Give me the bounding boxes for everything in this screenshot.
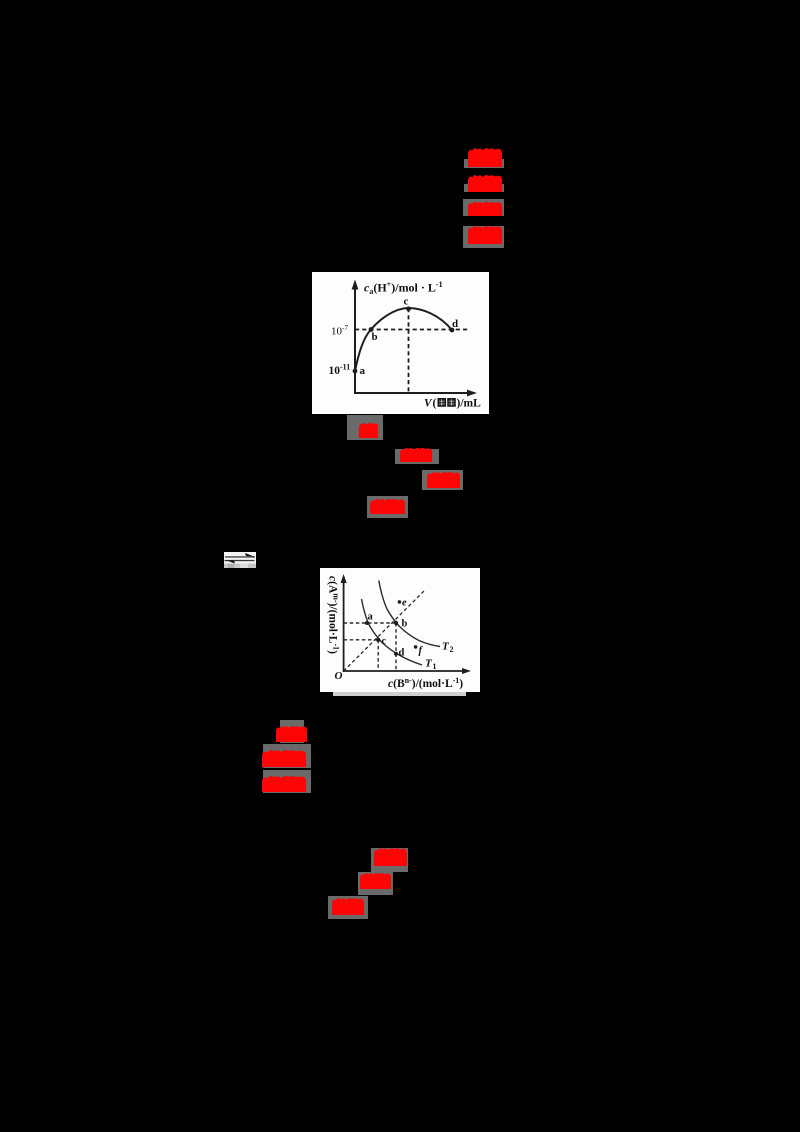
point c [406, 306, 411, 311]
answer A3 red text blob [468, 201, 502, 216]
point d [450, 328, 455, 333]
svg-text:a: a [360, 365, 366, 377]
answer B2 red text blob [400, 447, 432, 462]
answer A3 gray highlight [463, 199, 504, 216]
top harpoon shaft [225, 556, 255, 557]
answer B1 gray highlight [347, 415, 383, 440]
answer A2 red text blob [468, 174, 502, 192]
fake kanji 盐 [438, 398, 447, 407]
svg-text:c(Bn-)/(mol·L-1): c(Bn-)/(mol·L-1) [388, 676, 463, 690]
answer B3 red text blob [427, 471, 460, 488]
answer A1 red text blob [468, 147, 502, 167]
answer A4 gray highlight [463, 226, 504, 248]
point e [398, 600, 402, 604]
dashed horizontal through c [344, 639, 379, 641]
x-axis graph1 [354, 392, 472, 394]
svg-text:d: d [399, 648, 405, 659]
point b [369, 327, 374, 332]
answer C2 gray highlight [263, 744, 311, 768]
x-axis title V(盐酸)/mL [424, 398, 481, 410]
answer B4 red text blob [370, 498, 405, 514]
bottom harpoon shaft [225, 560, 255, 561]
answer A2 gray highlight [464, 184, 504, 192]
curve T1 [362, 599, 423, 665]
point f [414, 645, 418, 649]
point b [394, 621, 398, 625]
answer A4 red text blob [468, 225, 502, 244]
answer B3 gray highlight [422, 470, 463, 490]
answer B2 gray highlight [395, 449, 439, 464]
dashed horizontal through a,b [344, 622, 396, 624]
answer C2 red text blob [262, 749, 306, 767]
svg-text:ca(H+)/mol · L-1: ca(H+)/mol · L-1 [364, 280, 443, 296]
svg-text:e: e [402, 598, 407, 609]
svg-text:f: f [419, 646, 424, 657]
point c [376, 638, 380, 642]
svg-text:)/mL: )/mL [457, 398, 482, 410]
answer C3 gray highlight [263, 770, 311, 793]
answer C3 red text blob [262, 775, 306, 792]
svg-text:O: O [335, 670, 343, 682]
fake kanji 酸 [447, 398, 456, 407]
dashed vertical line at c [408, 308, 410, 393]
dashed horizontal line at 1e-7 [355, 329, 469, 331]
point d [394, 652, 398, 656]
svg-text:b: b [402, 619, 408, 630]
x-axis graph2 [343, 670, 466, 672]
svg-text:1: 1 [433, 662, 437, 671]
point a [365, 621, 369, 625]
y-axis graph2 [343, 581, 345, 672]
answer D3 red text blob [332, 897, 364, 915]
bottom harpoon barb [226, 560, 235, 563]
bottom gray strip [224, 564, 256, 569]
svg-text:a: a [368, 612, 374, 623]
answer C1 gray highlight [280, 720, 304, 743]
answer D3 gray highlight [328, 896, 368, 919]
svg-text:c(Am-)/(mol·L-1): c(Am-)/(mol·L-1) [327, 576, 341, 654]
svg-text:(: ( [433, 398, 437, 410]
svg-text:2: 2 [450, 645, 454, 654]
dashed diagonal through origin [344, 590, 425, 671]
answer D1 gray highlight [371, 848, 408, 872]
curve T2 [379, 581, 440, 647]
answer C1 red text blob [276, 725, 307, 742]
dashed vertical through b [395, 623, 397, 671]
svg-text:d: d [452, 318, 458, 330]
svg-text:c: c [382, 636, 387, 647]
answer D1 red text blob [374, 847, 407, 866]
top harpoon barb [245, 553, 254, 557]
svg-text:10-11: 10-11 [329, 363, 351, 378]
y-axis graph1 [354, 288, 356, 394]
svg-text:c: c [404, 296, 409, 308]
answer D2 gray highlight [358, 872, 393, 895]
point a [353, 369, 358, 374]
titration curve a-b-c-d [355, 308, 452, 371]
answer D2 red text blob [360, 872, 391, 889]
dashed vertical through c [377, 640, 379, 671]
graph 2 bottom gray strip [333, 692, 466, 696]
svg-text:10-7: 10-7 [331, 323, 348, 338]
svg-text:b: b [372, 331, 378, 343]
answer A1 gray highlight [464, 159, 504, 168]
answer B4 gray highlight [367, 496, 408, 518]
answer B1 red text blob [359, 422, 378, 438]
